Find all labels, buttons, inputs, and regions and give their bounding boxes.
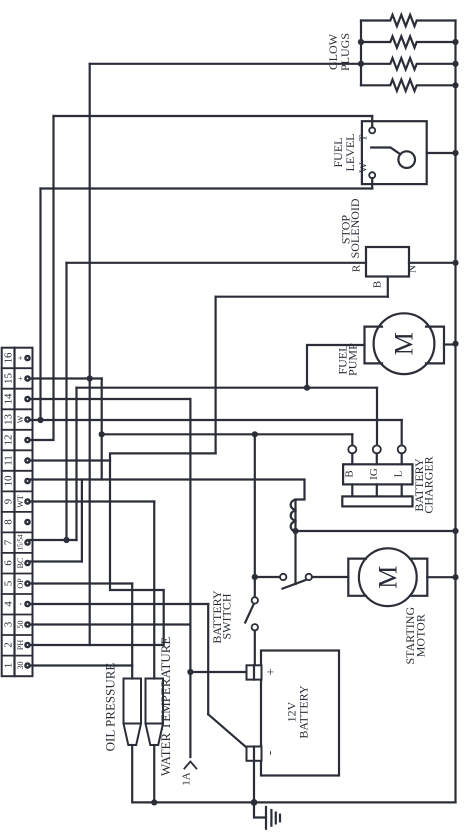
svg-text:50: 50: [16, 621, 25, 629]
junction dot switch feed node: [252, 574, 258, 580]
oil pressure sender body: [124, 679, 142, 724]
wire terminal 4 vertical x=207.9: [207, 604, 209, 714]
wire terminal 14 horizontal: [28, 398, 191, 400]
wire fuel pump to rail: [444, 343, 456, 345]
svg-text:5: 5: [3, 580, 15, 586]
svg-text:13: 13: [3, 414, 15, 426]
svg-text:IG: IG: [368, 468, 380, 480]
junction dot rail fuel level: [452, 150, 458, 156]
coil bump 3: [291, 522, 296, 532]
terminal strip numbers: [3, 352, 15, 668]
starter solenoid coil vertical: [294, 500, 296, 532]
svg-text:+: +: [16, 376, 25, 381]
wire battery plus feed horizontal: [190, 671, 246, 673]
stop solenoid box: [366, 247, 409, 277]
svg-text:+: +: [16, 355, 25, 360]
svg-text:+: +: [263, 668, 278, 675]
battery charger terminal circle IG: [373, 445, 381, 453]
fuel pump right bracket: [426, 327, 444, 364]
wire feed to switches vertical x=254.8: [254, 434, 256, 577]
wire 1A fused feed vertical x=190.4: [189, 399, 191, 757]
1A arrowhead: [184, 762, 196, 769]
svg-text:7: 7: [3, 539, 15, 545]
wire terminal 3 (50) horizontal: [28, 623, 191, 625]
svg-text:WT: WT: [16, 495, 25, 508]
svg-text:B: B: [343, 470, 355, 477]
junction dot solenoid R vertical at terminal 7: [63, 537, 69, 543]
junction dot rail solenoid N: [452, 260, 458, 266]
svg-text:PH: PH: [16, 640, 25, 650]
svg-text:-: -: [262, 751, 277, 755]
fuel level float arm: [371, 148, 400, 155]
battery switch contact bottom: [252, 624, 258, 630]
water temp sender taper: [146, 724, 164, 746]
wire coil link to starter lever: [294, 531, 296, 584]
terminal dot 4: [25, 602, 29, 606]
wire starting motor to rail: [427, 576, 455, 578]
svg-text:2: 2: [3, 642, 15, 648]
glow plug resistor GP3: [361, 58, 456, 69]
svg-text:M: M: [373, 566, 402, 589]
wire terminal 6 (BC) horizontal: [28, 560, 82, 562]
junction dot rail coil wire: [452, 528, 458, 534]
svg-text:-: -: [16, 602, 25, 605]
wire terminal 6 vertical x=81.9: [81, 480, 83, 562]
terminal dot 9: [25, 499, 29, 503]
wire fuel pump left lead: [307, 345, 365, 388]
wire stop solenoid N to rail: [409, 262, 456, 264]
wire fuel level W stub: [371, 178, 373, 188]
starting motor left bracket: [348, 559, 366, 596]
wire charger L drop: [401, 420, 403, 445]
terminal dot 16: [25, 356, 29, 360]
junction dot ground node: [251, 799, 258, 806]
glow plug resistor GP2: [361, 36, 456, 47]
wire feed to starter switch contact: [255, 576, 280, 578]
svg-text:PLUGS: PLUGS: [338, 33, 352, 71]
battery minus post: [247, 747, 262, 761]
wire battery minus stem to ground: [253, 761, 255, 803]
wire IG net vertical x=76.5 to terminal 7: [75, 388, 77, 540]
wire charger L / lamp horizontal to terminal 13: [28, 419, 402, 421]
battery charger box: [343, 464, 412, 484]
svg-text:M: M: [390, 332, 419, 355]
terminal dot 11: [25, 458, 29, 462]
right rail (battery negative return bus): [454, 21, 456, 803]
wire fuel level T stub: [371, 116, 373, 127]
svg-text:WATER TEMPERATURE: WATER TEMPERATURE: [158, 637, 173, 777]
ground bar 2: [270, 810, 272, 826]
terminal dot 5: [25, 581, 29, 585]
battery minus post divider: [253, 747, 255, 761]
glow plug resistor GP1: [361, 15, 456, 26]
junction dot B feed left end: [99, 431, 105, 437]
wire terminal 15 horizontal: [28, 377, 102, 379]
wire terminal 9 (WT) horizontal: [28, 500, 155, 502]
wire oil pressure sender feed vertical: [131, 584, 133, 679]
junction dot 1A battery plus: [187, 669, 193, 675]
junction dot rail glow row4: [452, 82, 458, 88]
wire charger stub L circle to box: [401, 453, 403, 464]
battery charger lower stub B: [351, 484, 353, 496]
wire water temp sender to bottom wire: [153, 745, 155, 802]
terminal dot 7: [25, 540, 29, 544]
svg-text:16: 16: [3, 352, 15, 364]
terminal strip outer box: [2, 348, 33, 677]
svg-text:CHARGER: CHARGER: [422, 456, 436, 513]
wire charger stub IG circle to box: [376, 453, 378, 464]
fuel pump left bracket: [365, 327, 383, 364]
wire terminal 5 (OP) horizontal: [28, 582, 133, 584]
wire glow feed horizontal from terminal bus: [90, 63, 361, 65]
fuel pump motor circle: [374, 313, 435, 374]
svg-text:SWITCH: SWITCH: [220, 593, 234, 639]
terminal dot 6: [25, 561, 29, 565]
wire fuel level T vertical x=53.5 to terminal 12: [28, 116, 54, 440]
starting motor circle: [359, 548, 417, 606]
svg-text:R: R: [351, 264, 363, 272]
svg-text:6: 6: [3, 560, 15, 566]
svg-text:MOTOR: MOTOR: [413, 614, 427, 657]
junction dot B feed at switch drop: [252, 431, 258, 437]
coil bump 2: [291, 511, 296, 521]
wire charger B feed horizontal y=434.5: [102, 433, 353, 435]
junction dot rail glow row2: [452, 39, 458, 45]
battery charger terminal circle L: [398, 445, 406, 453]
ground bar 3: [275, 813, 277, 824]
wire terminal 10 coil feed: [28, 480, 305, 500]
terminal strip row lines: [2, 368, 33, 655]
junction dot fuel pump feed: [304, 385, 310, 391]
terminal dot 14: [25, 397, 29, 401]
junction dot glow connector row2: [358, 39, 364, 45]
wire terminal 11: [28, 459, 111, 461]
svg-text:15: 15: [3, 373, 15, 385]
battery charger terminal circle B: [348, 445, 356, 453]
svg-text:SOLENOID: SOLENOID: [348, 198, 362, 258]
battery switch contact top: [252, 597, 258, 603]
svg-text:3: 3: [3, 621, 15, 627]
svg-text:9: 9: [3, 498, 15, 504]
svg-text:N: N: [407, 265, 419, 273]
battery plus post divider: [253, 665, 255, 679]
svg-text:8: 8: [3, 519, 15, 525]
water temp sender body: [146, 679, 164, 724]
battery plus post: [247, 665, 262, 679]
svg-text:4: 4: [3, 601, 15, 607]
wire fuel level W vertical x=40.5 to lamp wire: [39, 189, 41, 421]
wire fuel level W horizontal: [41, 187, 373, 189]
svg-text:30: 30: [16, 662, 25, 670]
junction dot lamp wire at x=40.5: [37, 417, 43, 423]
svg-text:LEVEL: LEVEL: [343, 134, 357, 172]
battery charger lower stub L: [401, 484, 403, 496]
svg-text:T: T: [358, 134, 370, 141]
fuel level rheostat circle: [398, 151, 415, 168]
battery box: [261, 651, 339, 776]
junction dot water temp at bottom wire: [151, 799, 157, 805]
junction dot glow connector row3: [358, 61, 364, 67]
ground bar 4: [279, 815, 281, 822]
wire stop solenoid B horizontal: [216, 296, 388, 298]
starter switch contact right: [306, 574, 312, 580]
glow plug resistor GP4: [361, 80, 456, 91]
svg-text:15/54: 15/54: [17, 534, 25, 550]
svg-text:BATTERY: BATTERY: [296, 685, 310, 739]
ground bar 1: [265, 807, 267, 829]
terminal strip labels: [16, 355, 25, 669]
junction dot rail glow row3: [452, 61, 458, 67]
wire fuel level T horizontal: [54, 115, 373, 117]
wire terminal 7 (15/54) horizontal: [28, 539, 77, 541]
ground stub: [254, 802, 266, 817]
terminal dot 8: [25, 520, 29, 524]
svg-text:1A: 1A: [180, 772, 192, 786]
coil bump 1: [291, 500, 296, 510]
wire terminal 4 (minus) horizontal: [28, 603, 209, 605]
fuel level terminal T circle: [369, 127, 375, 133]
svg-text:12: 12: [3, 435, 15, 446]
wire terminal 15 vertical x=101.7: [101, 379, 103, 480]
terminal dot 3: [25, 622, 29, 626]
starter switch lever: [283, 580, 306, 588]
wire stop solenoid R vertical x=67: [65, 263, 67, 540]
terminal dot 15: [25, 376, 29, 380]
starter switch contact left: [280, 574, 286, 580]
wire fuel level output to rail: [427, 152, 456, 154]
glow plugs left connector: [360, 21, 362, 86]
battery charger lower stub IG: [376, 484, 378, 496]
svg-text:10: 10: [3, 475, 15, 487]
starting motor right bracket: [410, 559, 427, 596]
wire charger B drop: [351, 434, 353, 445]
wire fuel pump feed horizontal (IG net): [77, 387, 378, 389]
wire stop solenoid B stub: [387, 277, 389, 297]
fuel level terminal W circle: [369, 172, 375, 178]
terminal dot 2: [25, 643, 29, 647]
svg-text:L: L: [393, 470, 405, 477]
svg-text:W: W: [16, 415, 25, 423]
svg-text:PUMP: PUMP: [346, 343, 360, 376]
svg-text:W: W: [358, 162, 370, 173]
svg-text:BC: BC: [16, 558, 25, 569]
fuel level sender box: [362, 121, 427, 184]
svg-text:B: B: [372, 281, 384, 288]
bottom return wire: [132, 745, 455, 802]
junction dot glow vertical at terminal 15: [87, 375, 93, 381]
wire stop solenoid R horizontal: [67, 262, 367, 264]
wire charger IG drop: [376, 388, 378, 446]
terminal strip divider column: [13, 348, 15, 677]
svg-text:14: 14: [3, 393, 15, 405]
junction dot rail starting motor: [452, 574, 458, 580]
wire water temp sender feed vertical: [153, 502, 155, 679]
wire terminal 1 (30) horizontal: [28, 664, 133, 666]
wire battery switch to plus post: [254, 631, 256, 666]
wire glow feed vertical x=89: [89, 64, 91, 645]
oil pressure sender taper: [124, 724, 142, 746]
terminal dot 10: [25, 479, 29, 483]
battery switch lever: [245, 604, 253, 622]
wire charger stub B circle to box: [351, 453, 353, 464]
svg-text:OP: OP: [16, 578, 25, 589]
junction dot coil bottom: [292, 528, 298, 534]
terminal dot 12: [25, 438, 29, 442]
svg-text:1: 1: [3, 663, 15, 669]
junction dot rail fuel pump: [452, 341, 458, 347]
wire feed to battery switch top contact: [254, 577, 256, 597]
wire starter switch to motor: [312, 576, 348, 578]
battery charger lower bar: [342, 496, 412, 506]
terminal dot 1: [25, 663, 29, 667]
wire stop solenoid B vertical x=215.6: [215, 297, 217, 454]
svg-text:OIL PRESSURE: OIL PRESSURE: [102, 663, 117, 752]
wire stop solenoid B route to terminal 2: [28, 453, 216, 645]
svg-text:11: 11: [3, 455, 15, 466]
wire coil to rail: [296, 530, 456, 532]
wire diagonal to battery minus post: [208, 714, 246, 747]
terminal dot 13: [25, 417, 29, 421]
